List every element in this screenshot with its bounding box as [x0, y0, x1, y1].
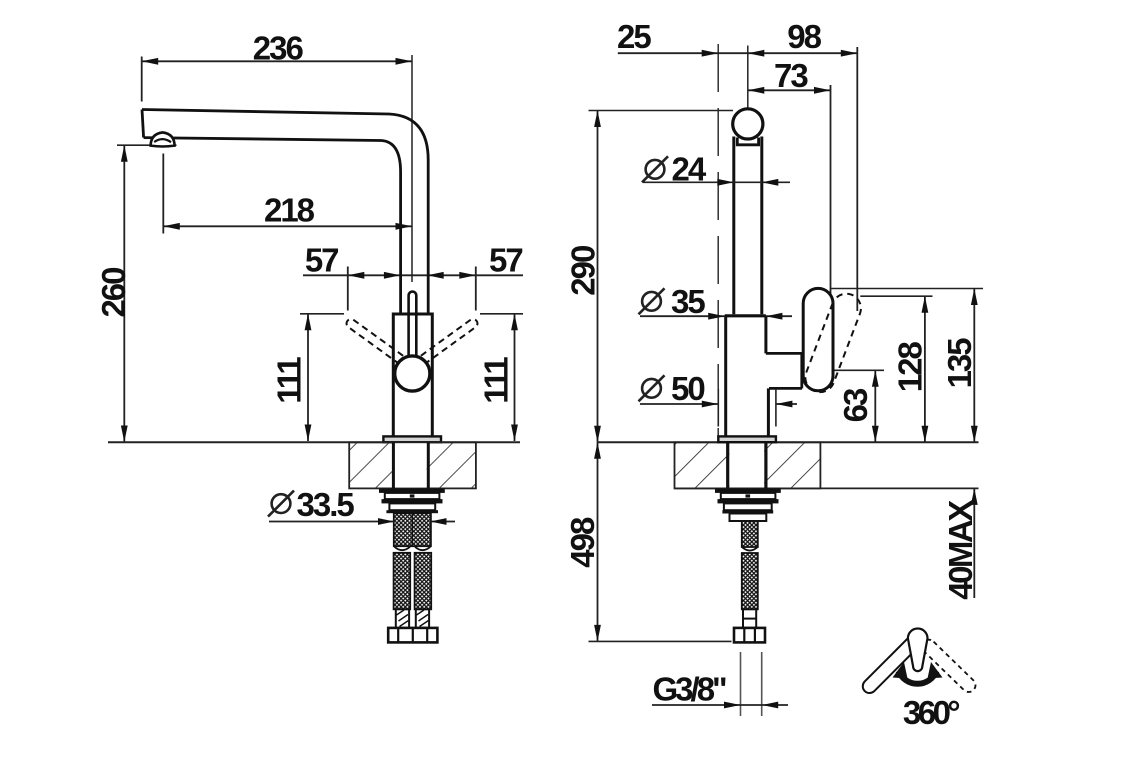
dimension 128 — [922, 296, 929, 442]
cap circle on top of pipe (side view) — [733, 109, 763, 139]
dimension 63 — [872, 370, 879, 442]
centerline of pipe (side view) — [747, 46, 749, 108]
dimension 25 and 98 (side view top) — [618, 47, 858, 311]
svg-text:63: 63 — [837, 388, 874, 422]
dimension diameter 50 (flange) — [639, 375, 798, 407]
countertop surface line (front view) — [108, 441, 520, 443]
svg-text:40MAX: 40MAX — [942, 500, 979, 600]
hose end connector (side view) — [743, 609, 756, 628]
hose end connectors (front view) — [396, 609, 429, 628]
svg-text:218: 218 — [264, 192, 315, 229]
handle lever dashed rotated (side view) — [805, 294, 861, 392]
svg-text:111: 111 — [477, 357, 514, 404]
countertop slab hatched (side view) — [675, 442, 821, 488]
dimension 57 right (handle swing) — [412, 267, 523, 311]
dimension diameter 33.5 (shank) — [268, 491, 455, 525]
svg-text:35: 35 — [671, 283, 705, 320]
threaded shank through counter (side view) — [728, 442, 766, 488]
faucet pipe (side view) — [734, 137, 762, 315]
svg-text:98: 98 — [787, 18, 821, 55]
hose end nuts (front view) — [388, 628, 437, 643]
base flange (front view) — [383, 436, 441, 442]
svg-text:50: 50 — [671, 370, 704, 407]
dimension 111 right — [480, 314, 523, 441]
aerator at spout tip — [151, 132, 175, 146]
svg-text:57: 57 — [305, 241, 338, 278]
braided supply hose lower (side view) — [742, 553, 758, 609]
svg-text:24: 24 — [672, 150, 707, 187]
svg-text:73: 73 — [774, 57, 808, 94]
hose end nut (side view) — [734, 628, 765, 643]
svg-text:G3/8": G3/8" — [653, 671, 727, 708]
dimension 260 (front view height) — [117, 145, 177, 442]
collar line under cap (side view) — [737, 138, 758, 145]
reference line 128 top — [860, 295, 932, 297]
svg-text:290: 290 — [565, 246, 602, 296]
locknut and washer stack (side view) — [715, 488, 781, 521]
handle dashed position right (front view) — [419, 319, 478, 364]
countertop surface line (side view) — [598, 441, 979, 443]
handle lever solid (side view) — [803, 288, 833, 390]
braided hose right (front view) — [415, 553, 432, 610]
dimension 40MAX (counter thickness) — [971, 488, 978, 598]
centerline of faucet pipe (front view) — [411, 55, 413, 282]
dimension 498 (hose length below counter) — [589, 442, 732, 641]
360 degree swivel icon: dashed arm — [922, 640, 976, 692]
svg-text:25: 25 — [617, 18, 651, 55]
centerline of spout outlet axis (side view) — [717, 44, 719, 436]
braided supply hoses upper bundle (front view) — [394, 513, 431, 550]
dimension 73 (side view) — [748, 85, 831, 297]
handle dashed position left (front view) — [347, 319, 406, 364]
dimension 57 left (handle swing) — [303, 267, 412, 311]
diameter 50 extension ticks — [718, 389, 776, 427]
dimension diameter 24 (side view pipe) — [642, 156, 790, 185]
svg-text:236: 236 — [253, 29, 304, 66]
locknut and washer stack (front view) — [379, 488, 445, 513]
faucet body outline with handle mount step (side view) — [726, 316, 804, 437]
faucet body (front view) — [393, 313, 432, 437]
360 degree swivel icon: rotation arrow — [893, 662, 943, 684]
counter bottom reference line (side view) — [675, 487, 979, 489]
dimension 111 left — [300, 314, 344, 441]
svg-text:111: 111 — [271, 357, 308, 404]
svg-text:260: 260 — [95, 268, 132, 318]
reference line 63 top — [835, 369, 885, 371]
spout outline (front view) — [142, 110, 428, 315]
dimension 135 — [971, 289, 978, 443]
360 degree swivel icon: solid arm — [863, 634, 922, 693]
lever rod (front view) — [409, 292, 417, 358]
base flange (side view) — [718, 436, 776, 442]
svg-text:57: 57 — [489, 241, 522, 278]
dimension 290 (side view height) — [589, 111, 734, 443]
body shoulder line (side view) — [725, 314, 766, 317]
countertop slab hatched (front view) — [349, 442, 476, 488]
threaded shank through counter (front view) — [393, 442, 428, 488]
svg-text:135: 135 — [941, 338, 978, 389]
reference line 135 top — [831, 288, 983, 290]
braided supply hose upper (side view) — [742, 521, 758, 551]
svg-text:33.5: 33.5 — [297, 486, 355, 523]
dimension G3/8 (hose thread) — [652, 652, 788, 716]
svg-text:128: 128 — [892, 342, 929, 393]
mixer ball joint (front view) — [395, 356, 430, 391]
dimension 236 (front view top width) — [142, 57, 412, 102]
dimension 218 (front view spout reach) — [163, 154, 412, 234]
360 degree swivel icon: knob — [908, 629, 928, 672]
dimension diameter 35 (body) — [639, 288, 793, 319]
braided hose left (front view) — [394, 553, 411, 610]
svg-text:360°: 360° — [903, 694, 960, 731]
svg-text:498: 498 — [564, 517, 601, 568]
